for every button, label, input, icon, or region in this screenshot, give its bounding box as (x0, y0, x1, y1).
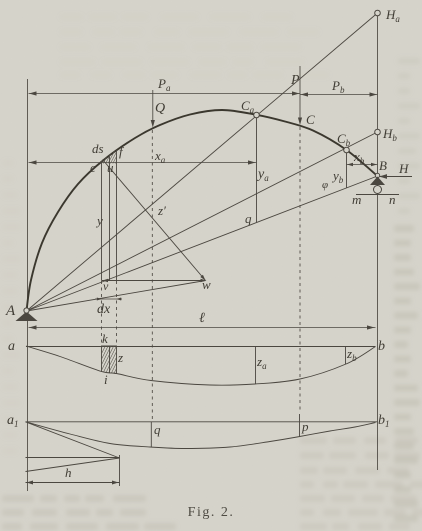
ordinate p under load P (299, 414, 301, 437)
svg-text:ℓ: ℓ (199, 311, 205, 326)
influence curve 2 (26, 422, 376, 449)
element vertical from f (116, 150, 118, 281)
support B pin (375, 173, 379, 177)
node C_b (344, 147, 350, 153)
svg-text:n: n (389, 192, 396, 207)
ordinate y_a from C_a to chord (256, 116, 258, 222)
svg-text:y: y (95, 213, 103, 228)
svg-text:φ: φ (322, 179, 328, 191)
influence curve for H (26, 346, 376, 385)
arch A-B (27, 110, 378, 311)
svg-text:i: i (104, 372, 108, 387)
line v to w (102, 280, 206, 282)
closing line to T (26, 458, 120, 472)
svg-text:C: C (306, 112, 315, 127)
dimension line x_a (29, 162, 257, 164)
node C_a (254, 112, 260, 118)
svg-text:h: h (65, 465, 72, 480)
svg-text:Q: Q (155, 101, 165, 116)
dimension line P_a (29, 93, 301, 95)
node H_a (375, 10, 381, 16)
horizontal line through T (26, 457, 120, 459)
ray A to w (27, 281, 206, 312)
svg-text:B: B (379, 158, 387, 173)
baseline a1-b1 (26, 421, 378, 423)
tangent line d to w (103, 160, 206, 281)
ordinate z_a (255, 347, 257, 385)
baseline a-b (26, 346, 376, 348)
dimension dx (95, 298, 122, 300)
node H_b (375, 129, 381, 135)
svg-text:v: v (103, 279, 109, 293)
dimension h (26, 482, 120, 484)
chord A to B (27, 176, 378, 311)
support B triangle (370, 177, 385, 186)
left reference vertical through A, a, a1 (27, 79, 29, 491)
svg-text:H: H (398, 161, 409, 176)
dimension line P_b (300, 94, 378, 96)
dimension line x_b (347, 164, 378, 166)
support base line m-n (356, 194, 399, 196)
tangent from a1 (26, 422, 120, 458)
load P arrow (299, 66, 301, 119)
ray A through C_a to H_a (27, 13, 378, 311)
hatched arch element ds (87, 142, 129, 167)
ordinate q under load Q (150, 422, 152, 447)
dimension line l (span) (29, 327, 376, 329)
svg-text:ds: ds (92, 141, 104, 156)
hatched strip k-z-i (102, 346, 117, 374)
load Q arrow (152, 90, 154, 122)
svg-text:z′: z′ (157, 203, 166, 218)
support B roller (374, 186, 382, 194)
ray A through C_b to H_b (27, 132, 378, 311)
dashed drop line left of dx (101, 281, 103, 346)
right reference vertical through H_a, H_b, B, b, b1 (377, 13, 379, 470)
svg-text:q: q (245, 211, 252, 226)
svg-text:m: m (352, 192, 361, 207)
svg-text:b: b (378, 339, 385, 354)
svg-text:q: q (154, 422, 161, 437)
thrust line H at B (380, 176, 412, 178)
svg-text:a: a (8, 339, 15, 354)
vertical at T (119, 455, 121, 486)
support A triangle (16, 312, 38, 322)
dashed drop line right of dx (116, 281, 118, 346)
dashed line under load P (299, 127, 301, 413)
svg-text:z: z (117, 350, 123, 365)
svg-text:p: p (301, 419, 309, 434)
svg-text:A: A (5, 303, 16, 319)
svg-text:w: w (202, 277, 211, 292)
strip divider at k (109, 347, 111, 373)
element vertical middle (109, 156, 111, 281)
svg-text:dx: dx (97, 302, 111, 317)
dashed line under load Q (151, 130, 153, 421)
ordinate z_b (345, 347, 347, 365)
svg-text:k: k (102, 331, 108, 346)
element vertical from d (101, 161, 103, 281)
ordinate y_b from C_b to chord (346, 150, 348, 188)
